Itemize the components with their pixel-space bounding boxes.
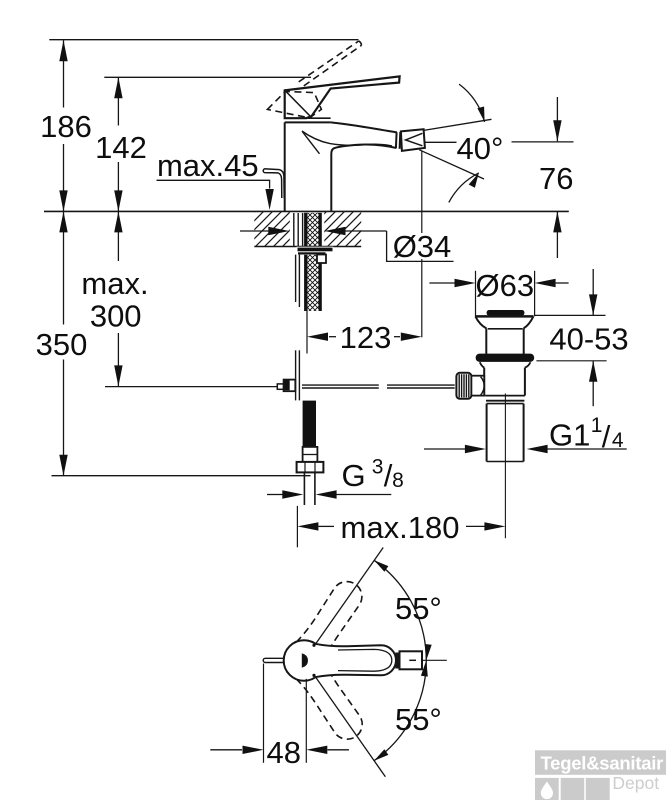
dimension 142 line upper bbox=[117, 77, 119, 125]
dia34 dim line left bbox=[240, 230, 270, 232]
dimension 76 stem upper bbox=[556, 97, 558, 141]
40deg upper arc bbox=[459, 84, 485, 122]
pull rod below deck bbox=[296, 255, 300, 307]
waste flange taper bbox=[475, 316, 533, 328]
drain axis line bbox=[504, 394, 506, 539]
dimension 76 arrow down bbox=[553, 120, 561, 141]
waste upper cylinder bbox=[486, 328, 523, 354]
dia63 ext left bbox=[475, 271, 477, 317]
handle skirt bottom line bbox=[306, 117, 330, 119]
top view pull rod bbox=[263, 658, 284, 662]
watermark square 1 bbox=[535, 778, 559, 800]
55deg lower radial line bbox=[304, 661, 385, 777]
48 arrow right bbox=[243, 746, 264, 754]
55deg upper radial line bbox=[304, 548, 383, 661]
watermark square 2 bbox=[561, 778, 585, 800]
123 dim segments bbox=[329, 336, 400, 338]
40-53 stem upper bbox=[592, 269, 594, 315]
supply hose braided bbox=[303, 401, 316, 447]
dashed lever down 55 bbox=[296, 660, 369, 746]
svg-text:4: 4 bbox=[612, 429, 624, 452]
svg-text:40°: 40° bbox=[457, 131, 504, 166]
dimension 76 arrow up bbox=[553, 211, 561, 232]
max180 arrow left bbox=[297, 522, 318, 530]
dia34 leader corner bbox=[387, 231, 454, 261]
max180 dim right bbox=[466, 525, 485, 527]
svg-text:1: 1 bbox=[591, 414, 603, 437]
dimension 142 line lower bbox=[117, 162, 119, 211]
svg-text:G: G bbox=[341, 458, 365, 493]
svg-text:G1: G1 bbox=[549, 417, 590, 452]
linkage rod to drain 1 bbox=[302, 385, 379, 388]
mounting deck top line bbox=[44, 210, 569, 212]
top reference line (handle max height) bbox=[49, 39, 358, 41]
waste body bbox=[484, 368, 525, 396]
max180 dim left bbox=[318, 525, 334, 527]
48 ext left bbox=[263, 664, 265, 763]
dimension max300 arrow up bbox=[114, 211, 122, 232]
aerator bbox=[401, 129, 425, 151]
dimension max300 line upper bbox=[117, 211, 119, 261]
top view dot lower bbox=[312, 674, 315, 677]
label max. 300 bbox=[81, 266, 148, 334]
G114 arrow left bbox=[527, 445, 548, 453]
40deg upper arc arrow bbox=[477, 107, 484, 122]
waste thread relief lines bbox=[485, 396, 525, 401]
svg-text:max.: max. bbox=[81, 266, 148, 301]
top view pivot mark bbox=[302, 654, 307, 667]
watermark banner bbox=[535, 750, 666, 775]
dia34 dim line right bbox=[344, 230, 387, 232]
G3/8 arrow right bbox=[282, 490, 303, 498]
top view aerator box bbox=[400, 651, 423, 669]
aerator spray V bbox=[406, 133, 423, 146]
55deg arc arrow mid up bbox=[421, 660, 428, 676]
max45 arrow down bbox=[265, 189, 273, 210]
max45 underline leader bbox=[157, 180, 270, 188]
48 dim right bbox=[328, 749, 350, 751]
123 ext line right upper bbox=[421, 151, 423, 233]
svg-text:142: 142 bbox=[95, 130, 147, 165]
top view lever end connector bbox=[395, 653, 399, 669]
waste flange top bbox=[475, 315, 533, 318]
mounting nut plate bbox=[298, 252, 326, 254]
dia63 arrow left bbox=[535, 279, 556, 287]
mounting bracket bbox=[317, 255, 326, 264]
123 arrow right bbox=[401, 333, 422, 341]
dimension 186 arrow down bbox=[59, 190, 67, 211]
spout inner contour bbox=[302, 131, 392, 146]
40deg upper line bbox=[423, 119, 492, 130]
linkage clamp bbox=[284, 380, 296, 392]
waste knob box bbox=[471, 376, 484, 396]
123 arrow left bbox=[307, 333, 328, 341]
handle inner diagonal bbox=[286, 92, 312, 118]
40deg lower arc bbox=[449, 173, 479, 203]
dia34 arrow right bbox=[268, 227, 289, 235]
deck hatching right bbox=[291, 210, 400, 247]
supply connector tube bbox=[304, 472, 315, 505]
dia34 arrow left bbox=[325, 227, 346, 235]
76 top reference line left (from aerator) bbox=[425, 141, 457, 143]
svg-text:Depot: Depot bbox=[612, 773, 659, 793]
svg-text:55°: 55° bbox=[395, 591, 442, 626]
faucet body left edge bbox=[284, 122, 286, 211]
48 ext right bbox=[305, 679, 307, 763]
dimension max300 arrow down bbox=[114, 365, 122, 386]
washer seam bbox=[297, 247, 334, 255]
dimension 350 arrow up bbox=[59, 211, 67, 232]
dimension 142 arrow up bbox=[114, 77, 122, 98]
top view lever inner contour bbox=[338, 649, 392, 671]
dimension 186 line lower bbox=[63, 144, 65, 211]
lower reference line (350 bottom) bbox=[52, 475, 311, 477]
G3/8 arrow left bbox=[316, 490, 337, 498]
shank sleeve lines in deck hole bbox=[294, 213, 303, 247]
svg-text:55°: 55° bbox=[395, 702, 442, 737]
76 top reference line right bbox=[512, 141, 574, 143]
waste neck line bbox=[488, 328, 523, 330]
max180 arrow right bbox=[484, 522, 505, 530]
svg-text:48: 48 bbox=[267, 735, 301, 770]
svg-text:Tegel&sanitair: Tegel&sanitair bbox=[541, 753, 664, 774]
svg-text:max.180: max.180 bbox=[341, 510, 460, 545]
dia63 ext right bbox=[534, 271, 536, 317]
svg-text:300: 300 bbox=[90, 299, 142, 334]
svg-text:3: 3 bbox=[372, 456, 384, 479]
top view lever outline bbox=[315, 644, 396, 677]
55deg arc arrow bottom bbox=[374, 749, 388, 761]
svg-text:186: 186 bbox=[40, 109, 92, 144]
spout joint rings bbox=[396, 132, 400, 149]
svg-text:76: 76 bbox=[539, 161, 573, 196]
faucet body top line bbox=[285, 121, 331, 123]
G3/8 dim left bbox=[267, 494, 283, 496]
55deg arc arrow mid down bbox=[425, 644, 432, 660]
40deg lower line bbox=[419, 150, 484, 179]
G114 dim right bbox=[548, 448, 627, 450]
dimension 350 line lower bbox=[63, 360, 65, 476]
40-53 stem lower bbox=[592, 361, 594, 406]
spout height reference line (142) bbox=[104, 76, 311, 78]
G114 arrow right bbox=[465, 445, 486, 453]
48 dim left bbox=[210, 749, 242, 751]
dimension 350 line upper bbox=[63, 211, 65, 324]
waste tailpipe bbox=[487, 404, 524, 462]
G3/8 dim right bbox=[337, 494, 392, 496]
dimension 186 line upper bbox=[63, 40, 65, 107]
dimension 350 arrow down bbox=[59, 455, 67, 476]
svg-text:Ø63: Ø63 bbox=[475, 268, 534, 303]
label G1 1/4 bbox=[549, 414, 624, 454]
waste lower shoulder bbox=[480, 362, 531, 367]
dia63 dim right bbox=[556, 282, 569, 284]
55deg arc bbox=[374, 560, 426, 760]
svg-text:max.45: max.45 bbox=[157, 148, 259, 183]
123 ext line right lower bbox=[421, 259, 423, 337]
dashed raised handle blade bbox=[299, 41, 362, 86]
dashed lever up 55 bbox=[296, 575, 369, 661]
48 arrow left bbox=[306, 746, 327, 754]
threaded shank bbox=[304, 213, 322, 311]
watermark drop icon bbox=[541, 782, 553, 800]
faucet body right edge bbox=[331, 145, 396, 212]
deck hatching left bbox=[219, 210, 328, 247]
waste knob bbox=[456, 373, 471, 399]
dia63 dim left bbox=[429, 282, 454, 284]
55deg arc arrow top bbox=[374, 560, 388, 572]
dashed raised handle body bbox=[267, 91, 321, 118]
svg-text:8: 8 bbox=[392, 469, 404, 492]
dimension 142 arrow down bbox=[114, 190, 122, 211]
waste plug lid bbox=[487, 310, 525, 316]
hose collar bbox=[303, 447, 318, 462]
linkage reference line bbox=[105, 386, 277, 388]
svg-text:350: 350 bbox=[36, 327, 88, 362]
washer plate bbox=[298, 248, 333, 252]
top view dot upper bbox=[312, 644, 315, 647]
40-53 bottom ref line bbox=[536, 360, 606, 362]
dia63 arrow right bbox=[455, 279, 476, 287]
hose hex nut bbox=[297, 462, 324, 473]
40-53 arrow up bbox=[589, 361, 597, 382]
svg-text:Ø34: Ø34 bbox=[393, 229, 452, 264]
G114 dim left bbox=[424, 448, 465, 450]
waste seal ring bbox=[476, 354, 535, 362]
pull rod lower segment bbox=[296, 350, 300, 400]
linkage rod fitting bbox=[277, 384, 283, 389]
svg-text:123: 123 bbox=[340, 320, 392, 355]
dimension 76 stem lower bbox=[556, 211, 558, 258]
label G3/8 bbox=[341, 456, 403, 493]
handle lever outline bbox=[285, 76, 400, 118]
top view body circle bbox=[284, 640, 325, 681]
dimension 186 arrow up bbox=[59, 40, 67, 61]
40deg lower arc arrow bbox=[469, 173, 479, 188]
40-53 top ref line bbox=[534, 314, 605, 316]
watermark square 3 bbox=[586, 778, 610, 800]
top view centerline bbox=[422, 659, 447, 661]
40-53 arrow down bbox=[589, 294, 597, 315]
svg-text:40-53: 40-53 bbox=[549, 322, 628, 357]
spout inner diagonal bbox=[303, 132, 320, 154]
top view aerator inner dash bbox=[409, 659, 416, 661]
deck bottom line bbox=[254, 246, 361, 248]
max180 ext left bbox=[296, 506, 298, 547]
faucet spout top edge bbox=[331, 122, 397, 132]
linkage rod to drain 2 bbox=[387, 385, 455, 388]
pop-up rod knob hook bbox=[263, 169, 284, 199]
dimension max300 line lower bbox=[117, 333, 119, 386]
123 ext line left bbox=[306, 304, 308, 354]
